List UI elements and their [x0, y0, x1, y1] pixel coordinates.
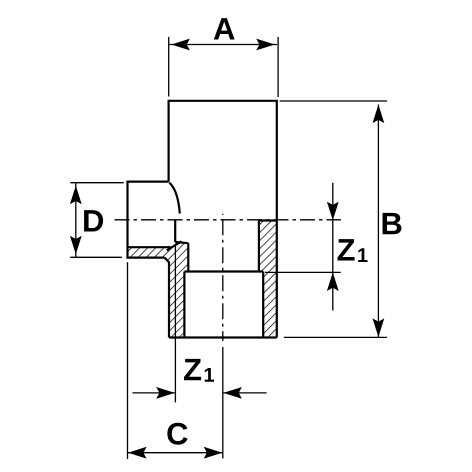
socket bore left edge	[183, 272, 185, 338]
dim D line	[75, 183, 77, 257]
dim B top extension line	[280, 100, 388, 102]
dim Z1 bottom arrow left	[156, 387, 175, 399]
dim Z1 bottom arrow right	[223, 387, 242, 399]
hatch: right socket wall section	[259, 221, 277, 338]
dim Z1 bottom left tail	[133, 392, 175, 394]
branch lower outer chamfer	[165, 258, 170, 263]
dim D arrow bottom	[70, 236, 82, 255]
label Z1 bottom	[184, 359, 201, 380]
socket bore right edge	[262, 272, 264, 338]
dim C line	[128, 452, 222, 454]
branch centerline	[115, 219, 342, 221]
dim A left extension line	[168, 37, 170, 97]
dim Z1 right line (tails + span)	[332, 183, 334, 311]
socket stop shoulder line	[184, 270, 263, 272]
dim C left extension line	[127, 262, 129, 459]
bore extension line (through hatch, down to Z1)	[174, 244, 176, 403]
dim A arrow left	[171, 39, 190, 51]
branch outline (top, mouth, bottom)	[128, 182, 169, 258]
dim C arrow left	[128, 447, 147, 459]
dim D arrow top	[70, 186, 82, 205]
socket mouth bottom face	[169, 336, 277, 338]
dim C arrow right	[204, 447, 223, 459]
hatch: branch bottom wall + left socket wall section	[128, 241, 189, 337]
dim B line	[377, 105, 379, 338]
label Z1 right	[337, 239, 354, 260]
right wall top edge	[259, 219, 277, 221]
dim B arrow top	[373, 105, 385, 124]
dim Z1 right bottom reference line	[265, 271, 341, 273]
dim D top extension line	[70, 182, 123, 184]
junction corner miter edge	[167, 241, 182, 250]
dim A arrow right	[256, 39, 275, 51]
dim B arrow bottom	[373, 318, 385, 337]
right wall inner edge	[258, 221, 260, 272]
junction fillet curve	[169, 183, 180, 214]
label D	[84, 210, 103, 231]
body axis extension line (below fitting)	[222, 347, 224, 459]
label C	[167, 423, 187, 445]
label A	[214, 18, 235, 39]
dim Z1 right arrow top	[327, 202, 339, 221]
junction inner fillet edge	[175, 242, 188, 243]
body centerline	[222, 214, 224, 341]
branch bottom wall inner edge	[128, 246, 171, 248]
dim D bottom extension line	[70, 256, 122, 258]
label B	[383, 213, 402, 234]
body outline (top + left + right edges)	[169, 101, 277, 338]
dim Z1 right arrow bottom	[327, 272, 339, 291]
dim B bottom extension line	[284, 336, 387, 338]
dim Z1 bottom right tail	[223, 392, 266, 394]
branch socket stop edge	[174, 220, 176, 242]
socket channel left edge	[187, 243, 189, 271]
socket outer left edge	[168, 262, 170, 338]
dim A right extension line	[277, 37, 279, 97]
dim A line	[170, 44, 278, 46]
